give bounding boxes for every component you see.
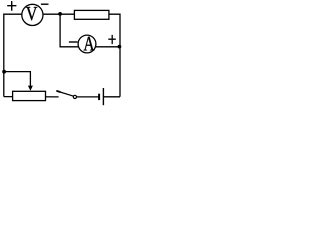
voltmeter letter V: [26, 7, 37, 20]
wire top right from resistor to right corner and down right side: [109, 14, 120, 97]
battery BT1 positive long plate: [102, 88, 104, 105]
wire ammeter branch vertical and horizontal: [60, 14, 119, 47]
voltmeter minus label: [41, 3, 49, 5]
switch S1 lever tip handle: [57, 90, 60, 93]
wire bottom from rheostat to switch left terminal: [4, 96, 59, 98]
node junction dot right: [118, 45, 122, 49]
ammeter U2 circle: [78, 35, 96, 53]
rheostat slider wire: [4, 72, 30, 87]
switch S1 hinge circle: [73, 95, 76, 98]
ammeter minus label: [69, 41, 78, 43]
node junction dot top: [58, 12, 62, 16]
ammeter plus label: [108, 35, 116, 44]
wire left side and top from corner to voltmeter: [4, 14, 75, 96]
node junction dot left: [2, 70, 6, 74]
voltmeter plus label: [7, 1, 16, 11]
rheostat R2 body: [13, 91, 46, 100]
voltmeter U1 circle: [22, 4, 43, 25]
resistor R1: [74, 10, 109, 19]
wire switch hinge to battery: [76, 96, 98, 98]
wire bottom right battery to corner: [103, 96, 120, 98]
switch S1 lever: [57, 91, 73, 96]
ammeter letter A: [84, 37, 95, 51]
rheostat slider arrowhead: [28, 86, 33, 91]
battery BT1 negative short plate: [98, 94, 100, 100]
